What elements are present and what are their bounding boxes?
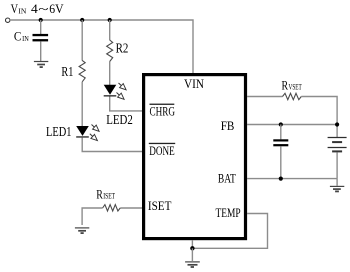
- wire RVSET pin stub: [247, 96, 283, 98]
- LED2 arrow 2: [115, 90, 126, 101]
- wire FB rail: [247, 124, 337, 126]
- battery BT1: [328, 138, 347, 152]
- svg-text:~: ~: [38, 1, 48, 16]
- svg-text:VSET: VSET: [289, 82, 302, 91]
- wire GND stub below IC: [191, 240, 193, 248]
- pin DONE label: [149, 143, 175, 158]
- LED2 arrow 1: [117, 81, 128, 92]
- node junction dot at R2: [108, 18, 112, 22]
- resistor RVSET: [283, 93, 302, 99]
- ground below CIN: [34, 62, 48, 68]
- wire BAT rail: [247, 178, 337, 180]
- svg-text:CHRG: CHRG: [150, 105, 176, 119]
- svg-text:V: V: [11, 1, 19, 16]
- node junction dot FB/cap: [279, 122, 283, 126]
- wire RISET to ISET pin: [120, 207, 142, 209]
- resistor RISET: [103, 205, 121, 211]
- node junction dot at R1: [80, 18, 84, 22]
- node junction dot FB/battery: [335, 122, 339, 126]
- wire CIN bottom: [40, 41, 42, 61]
- svg-text:R: R: [96, 186, 103, 201]
- svg-text:LED1: LED1: [46, 124, 72, 139]
- svg-text:VIN: VIN: [184, 77, 204, 91]
- wire cap C2 bottom: [280, 146, 282, 178]
- svg-text:4: 4: [31, 1, 38, 16]
- node VIN input terminal: [6, 18, 10, 22]
- wire top rail VIN: [10, 20, 193, 74]
- svg-text:R2: R2: [116, 41, 129, 56]
- svg-text:6V: 6V: [49, 1, 64, 16]
- svg-text:R: R: [282, 77, 289, 92]
- svg-text:R1: R1: [61, 65, 73, 80]
- wire LED2 to CHRG pin: [110, 97, 143, 111]
- wire cap C2 top: [280, 125, 282, 140]
- resistor R1: [79, 60, 85, 81]
- ground below RISET: [75, 228, 89, 233]
- capacitor C2: [273, 139, 288, 146]
- svg-text:IN: IN: [22, 34, 29, 43]
- wire RISET to ground: [82, 208, 103, 225]
- resistor R2: [107, 40, 113, 62]
- svg-text:DONE: DONE: [149, 144, 174, 158]
- label CIN: [14, 29, 29, 44]
- op-amp U1 (charger IC body): [144, 75, 246, 239]
- node junction dot GND: [190, 246, 194, 250]
- wire R2 top: [109, 20, 111, 40]
- LED1: [76, 126, 89, 138]
- label VIN 4~6V: [11, 1, 65, 16]
- node junction dot BAT/cap: [279, 177, 283, 181]
- svg-text:C: C: [14, 29, 22, 44]
- wire CIN top: [40, 20, 42, 34]
- LED1 arrow 2: [88, 132, 99, 143]
- wire dot to ground: [191, 248, 193, 261]
- wire TEMP loop: [192, 214, 267, 249]
- wire LED1 to DONE pin: [82, 138, 142, 152]
- label RVSET: [282, 77, 302, 92]
- svg-text:TEMP: TEMP: [216, 206, 241, 220]
- svg-text:FB: FB: [221, 119, 235, 133]
- wire R1 top: [81, 20, 83, 61]
- svg-text:ISET: ISET: [148, 199, 172, 213]
- wire battery bottom: [336, 152, 338, 178]
- pin CHRG label: [150, 104, 176, 119]
- wire R2 to LED2: [109, 62, 111, 86]
- wire R1 to LED1: [81, 82, 83, 127]
- ground below IC: [185, 262, 200, 267]
- svg-text:BAT: BAT: [218, 171, 236, 185]
- node junction dot at CIN: [39, 18, 43, 22]
- LED1 arrow 1: [90, 122, 101, 133]
- ground below battery: [330, 186, 344, 191]
- svg-text:ISET: ISET: [103, 191, 115, 200]
- capacitor CIN: [33, 34, 49, 41]
- svg-text:LED2: LED2: [106, 112, 133, 127]
- wire RVSET to battery column: [301, 97, 337, 138]
- wire battery to ground: [336, 179, 338, 186]
- svg-text:IN: IN: [18, 6, 27, 15]
- LED2: [104, 85, 117, 97]
- label RISET: [96, 186, 115, 201]
